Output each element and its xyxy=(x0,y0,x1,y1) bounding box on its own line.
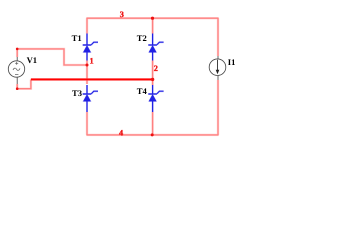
svg-text:3: 3 xyxy=(120,10,124,19)
svg-text:T1: T1 xyxy=(72,33,82,43)
svg-text:T3: T3 xyxy=(72,88,82,98)
svg-text:V1: V1 xyxy=(27,55,38,65)
svg-text:1: 1 xyxy=(90,57,94,66)
svg-text:4: 4 xyxy=(119,128,123,137)
svg-text:2: 2 xyxy=(154,64,158,73)
svg-text:T2: T2 xyxy=(137,33,147,43)
svg-text:T4: T4 xyxy=(137,86,148,96)
svg-text:I1: I1 xyxy=(228,57,236,67)
